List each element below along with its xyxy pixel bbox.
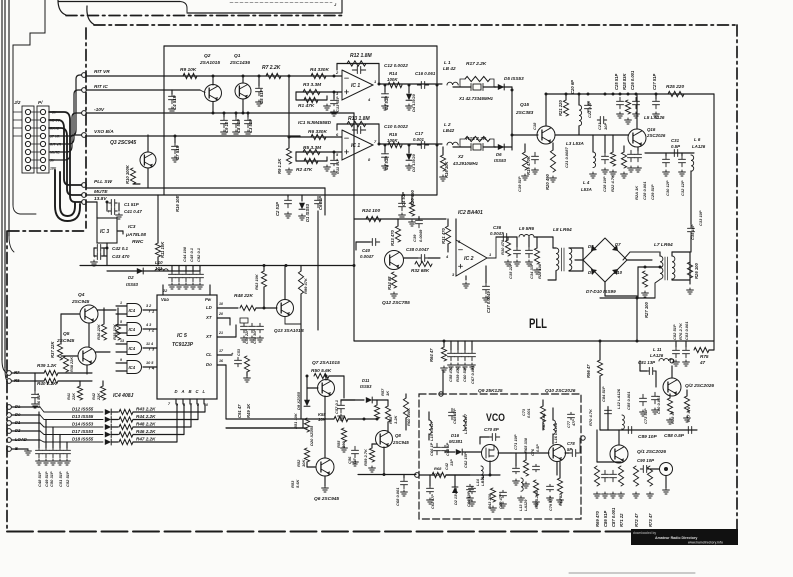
svg-text:ISS53: ISS53 xyxy=(126,282,139,287)
svg-text:Q16: Q16 xyxy=(647,127,656,132)
svg-text:C62 15P: C62 15P xyxy=(463,452,468,468)
svg-text:C42 0.1: C42 0.1 xyxy=(112,246,129,251)
svg-text:μA78L08: μA78L08 xyxy=(125,232,146,238)
svg-text:C12 0.0022: C12 0.0022 xyxy=(384,63,408,68)
svg-text:R50 5.6K: R50 5.6K xyxy=(311,368,332,374)
svg-text:R1 47K: R1 47K xyxy=(298,103,315,109)
svg-text:downloaded by: downloaded by xyxy=(633,531,656,535)
svg-text:2SC945: 2SC945 xyxy=(392,440,409,445)
svg-text:43.2910MHz: 43.2910MHz xyxy=(452,161,479,166)
svg-text:R7 2.2K: R7 2.2K xyxy=(262,65,281,71)
svg-text:C86 51P: C86 51P xyxy=(603,510,608,527)
svg-text:0.5P: 0.5P xyxy=(536,444,540,452)
svg-text:Pᴡ: Pᴡ xyxy=(205,297,212,302)
svg-text:0.001: 0.001 xyxy=(413,137,425,142)
svg-text:C70 8P: C70 8P xyxy=(484,427,499,432)
svg-text:C39: C39 xyxy=(412,234,417,242)
svg-text:10: 10 xyxy=(219,302,223,306)
svg-text:C1 51P: C1 51P xyxy=(124,202,139,207)
svg-text:0.0047: 0.0047 xyxy=(490,231,504,236)
svg-text:C91 47: C91 47 xyxy=(237,404,242,418)
svg-text:D20 XZ055: D20 XZ055 xyxy=(309,425,314,446)
svg-text:100K: 100K xyxy=(387,77,398,82)
svg-text:0.001: 0.001 xyxy=(527,408,531,418)
svg-text:C8 51P: C8 51P xyxy=(236,119,241,133)
svg-text:IC3: IC3 xyxy=(128,224,136,230)
svg-text:R64 47: R64 47 xyxy=(429,348,434,362)
svg-text:C2 51P: C2 51P xyxy=(275,202,280,216)
svg-text:C10 0.0022: C10 0.0022 xyxy=(384,124,408,129)
svg-text:Q8: Q8 xyxy=(395,433,401,438)
svg-text:C40: C40 xyxy=(362,248,371,253)
svg-text:T 3: T 3 xyxy=(148,347,155,352)
svg-text:IC4 408J: IC4 408J xyxy=(113,393,134,399)
svg-text:11 4: 11 4 xyxy=(146,342,154,346)
svg-text:R37 22K: R37 22K xyxy=(50,340,55,358)
svg-text:C55 30P: C55 30P xyxy=(253,329,257,344)
svg-text:L5 LA126: L5 LA126 xyxy=(644,115,665,120)
svg-text:ISS53: ISS53 xyxy=(360,384,372,389)
svg-text:C53: C53 xyxy=(237,348,241,356)
svg-text:Q13 3SA101B: Q13 3SA101B xyxy=(274,328,305,333)
svg-text:4 3: 4 3 xyxy=(145,323,152,327)
svg-text:R24 100: R24 100 xyxy=(362,208,380,214)
svg-text:0.0049: 0.0049 xyxy=(418,229,423,242)
svg-text:D5 ISS53: D5 ISS53 xyxy=(504,76,524,81)
svg-text:47P: 47P xyxy=(572,419,576,427)
svg-text:0.7: 0.7 xyxy=(352,458,357,464)
svg-text:C57 0.1: C57 0.1 xyxy=(334,399,339,414)
svg-text:R27 100: R27 100 xyxy=(644,301,649,318)
svg-text:R60 100K: R60 100K xyxy=(406,407,411,426)
svg-text:C80 0.001: C80 0.001 xyxy=(656,395,661,414)
svg-text:IC4: IC4 xyxy=(129,365,136,370)
svg-text:0.0047: 0.0047 xyxy=(360,254,374,259)
svg-text:C88 0.5P: C88 0.5P xyxy=(664,433,685,439)
svg-text:D7-D10 ISS99: D7-D10 ISS99 xyxy=(586,289,616,294)
svg-text:IC 1: IC 1 xyxy=(351,143,360,149)
svg-text:1: 1 xyxy=(120,301,122,305)
svg-text:R9 1.2K: R9 1.2K xyxy=(277,158,282,174)
svg-text:C11 51P: C11 51P xyxy=(335,158,340,174)
svg-text:C3 51P: C3 51P xyxy=(248,119,253,133)
svg-text:MUTE: MUTE xyxy=(94,189,108,195)
svg-text:R59 2.7K: R59 2.7K xyxy=(363,448,368,466)
svg-text:C28 10P: C28 10P xyxy=(602,176,607,192)
svg-text:R47 2.2K: R47 2.2K xyxy=(136,437,156,442)
svg-text:C34 33P: C34 33P xyxy=(529,263,534,279)
svg-text:R13 1.8M: R13 1.8M xyxy=(348,116,371,122)
svg-text:R46 2.2K: R46 2.2K xyxy=(136,429,156,434)
svg-text:C33 10P: C33 10P xyxy=(698,210,703,226)
svg-text:C4 51P: C4 51P xyxy=(172,95,177,110)
svg-text:D8: D8 xyxy=(588,244,594,249)
svg-text:C38 0.0047: C38 0.0047 xyxy=(406,247,429,252)
svg-text:R65 330: R65 330 xyxy=(523,437,528,453)
svg-text:IC 5: IC 5 xyxy=(177,333,188,339)
svg-text:C36: C36 xyxy=(493,225,502,230)
svg-text:C68 0.001: C68 0.001 xyxy=(395,487,400,506)
svg-text:R3 3.3M: R3 3.3M xyxy=(303,82,322,88)
svg-text:+: + xyxy=(107,209,110,214)
svg-text:C58 470: C58 470 xyxy=(448,366,453,382)
svg-text:10K: 10K xyxy=(318,417,327,422)
svg-text:L3 L53A: L3 L53A xyxy=(566,141,584,146)
svg-text:C19 51P: C19 51P xyxy=(517,176,522,192)
svg-text:R71 22: R71 22 xyxy=(619,513,624,527)
svg-text:IC4: IC4 xyxy=(129,308,136,313)
svg-text:C90 10P: C90 10P xyxy=(637,458,654,463)
svg-text:Q9 25K125: Q9 25K125 xyxy=(478,388,503,394)
svg-text:1.2K: 1.2K xyxy=(393,414,398,424)
svg-text:IC2 BA401: IC2 BA401 xyxy=(458,210,483,216)
svg-text:IC4: IC4 xyxy=(129,346,136,351)
svg-text:C25 51P: C25 51P xyxy=(614,73,619,90)
svg-text:C82 51P: C82 51P xyxy=(672,324,677,340)
svg-text:C66 1P: C66 1P xyxy=(429,442,434,456)
svg-text:ISS53: ISS53 xyxy=(494,158,507,163)
svg-text:C13 51P: C13 51P xyxy=(335,96,340,112)
svg-text:C52 51P: C52 51P xyxy=(65,471,70,487)
svg-text:C63 6P: C63 6P xyxy=(445,442,450,456)
svg-text:TC9123P: TC9123P xyxy=(172,342,194,348)
svg-text:Q15: Q15 xyxy=(520,102,529,108)
svg-text:Q12 2SC785: Q12 2SC785 xyxy=(382,300,410,306)
svg-text:10 5: 10 5 xyxy=(146,361,154,365)
svg-text:L9 5R6: L9 5R6 xyxy=(519,226,535,231)
svg-text:R39 1.2K: R39 1.2K xyxy=(37,363,57,368)
svg-text:13.8V: 13.8V xyxy=(94,196,107,202)
svg-text:R30 470: R30 470 xyxy=(500,239,505,255)
svg-text:C18: C18 xyxy=(532,122,537,130)
svg-text:C30 12P: C30 12P xyxy=(665,180,670,196)
svg-text:Q4: Q4 xyxy=(78,292,85,298)
svg-text:2SC945: 2SC945 xyxy=(71,299,90,305)
svg-text:47: 47 xyxy=(699,360,706,365)
svg-text:R26 100: R26 100 xyxy=(694,262,699,279)
svg-text:R96 47: R96 47 xyxy=(586,364,591,378)
svg-text:C54 22P: C54 22P xyxy=(245,329,249,344)
svg-text:L 6: L 6 xyxy=(694,137,701,142)
svg-text:XT: XT xyxy=(205,334,212,339)
svg-text:R6 330K: R6 330K xyxy=(308,129,327,135)
svg-text:R34 68: R34 68 xyxy=(387,276,392,290)
svg-text:C64 10P: C64 10P xyxy=(466,491,471,507)
svg-text:10K: 10K xyxy=(301,459,306,467)
svg-text:R39 470: R39 470 xyxy=(455,366,460,382)
svg-text:PLL: PLL xyxy=(529,316,547,331)
svg-text:-10V: -10V xyxy=(94,107,105,113)
svg-text:0.5P: 0.5P xyxy=(671,144,680,149)
svg-text:C50 31P: C50 31P xyxy=(49,471,54,487)
svg-text:D1 ISS53: D1 ISS53 xyxy=(305,203,310,222)
svg-text:T 1: T 1 xyxy=(148,309,155,314)
svg-text:C76: C76 xyxy=(531,448,535,456)
svg-text:C45 0.1: C45 0.1 xyxy=(189,247,194,262)
svg-text:XT: XT xyxy=(205,315,212,320)
svg-text:C73: C73 xyxy=(522,408,526,416)
svg-text:R48 2.2K: R48 2.2K xyxy=(136,422,156,427)
svg-text:2SA1015: 2SA1015 xyxy=(199,60,220,66)
svg-text:Q7 2SA1015: Q7 2SA1015 xyxy=(312,360,340,366)
svg-text:2SC945: 2SC945 xyxy=(56,338,75,344)
svg-text:D11: D11 xyxy=(362,378,370,383)
svg-text:R22 4.7K: R22 4.7K xyxy=(610,174,615,192)
svg-text:LB 42: LB 42 xyxy=(443,66,456,71)
svg-text:C20 6P: C20 6P xyxy=(570,80,575,94)
svg-text:R75: R75 xyxy=(700,354,709,359)
svg-text:21: 21 xyxy=(218,331,223,335)
svg-text:LA126: LA126 xyxy=(692,144,706,149)
svg-text:R49 1K: R49 1K xyxy=(246,403,251,418)
svg-text:2SC383: 2SC383 xyxy=(515,110,534,116)
svg-text:C26 0.001: C26 0.001 xyxy=(630,70,635,90)
svg-text:R28 100: R28 100 xyxy=(537,263,542,279)
svg-text:C32 12P: C32 12P xyxy=(680,180,685,196)
svg-text:R15: R15 xyxy=(389,132,398,137)
svg-text:IC1 NJM4558D: IC1 NJM4558D xyxy=(298,120,332,126)
svg-text:R9 10K: R9 10K xyxy=(180,67,197,73)
svg-text:R41: R41 xyxy=(67,393,71,400)
svg-text:D6: D6 xyxy=(496,152,502,157)
svg-text:R43 2.2K: R43 2.2K xyxy=(136,407,156,412)
svg-text:R4 330K: R4 330K xyxy=(310,67,329,73)
svg-text:L: L xyxy=(203,389,206,394)
svg-text:R73 47: R73 47 xyxy=(648,513,653,527)
svg-text:D18 ISS55: D18 ISS55 xyxy=(72,437,94,442)
svg-text:C67 0.001: C67 0.001 xyxy=(470,365,475,384)
svg-text:A: A xyxy=(181,389,185,394)
svg-text:LA126: LA126 xyxy=(650,353,664,358)
svg-text:C71 10P: C71 10P xyxy=(513,434,518,450)
svg-text:C92 0.1: C92 0.1 xyxy=(196,247,201,262)
svg-text:IC 2: IC 2 xyxy=(464,256,474,262)
svg-text:T 4: T 4 xyxy=(148,366,155,371)
svg-text:R28 83K: R28 83K xyxy=(622,72,627,90)
svg-text:C89 10P: C89 10P xyxy=(638,434,657,440)
svg-text:L53A: L53A xyxy=(581,187,592,192)
svg-text:L13: L13 xyxy=(519,504,523,511)
svg-text:R76 2.7K: R76 2.7K xyxy=(678,322,683,340)
svg-text:C48 51P: C48 51P xyxy=(37,471,42,487)
svg-text:R43 230: R43 230 xyxy=(487,493,492,509)
svg-text:M1381: M1381 xyxy=(449,439,463,444)
svg-text:R19 470K: R19 470K xyxy=(526,155,531,175)
svg-text:LA129: LA129 xyxy=(524,499,528,511)
svg-text:5.6K: 5.6K xyxy=(295,478,300,488)
svg-text:IC 3: IC 3 xyxy=(100,229,109,235)
svg-text:R38 22K: R38 22K xyxy=(70,357,74,372)
svg-text:Q5: Q5 xyxy=(63,331,70,337)
svg-text:R17 2.2K: R17 2.2K xyxy=(466,61,487,67)
svg-text:C77: C77 xyxy=(567,420,571,428)
svg-text:L 4: L 4 xyxy=(583,180,590,185)
svg-text:CL: CL xyxy=(206,352,212,357)
svg-text:L10: L10 xyxy=(155,260,163,265)
svg-text:C23: C23 xyxy=(597,122,602,130)
svg-text:P/: P/ xyxy=(38,100,43,105)
svg-text:L 11: L 11 xyxy=(653,347,662,352)
svg-text:Q3 2SC945: Q3 2SC945 xyxy=(110,140,136,146)
svg-text:R14: R14 xyxy=(389,71,398,76)
svg-text:R69 470: R69 470 xyxy=(595,510,600,527)
svg-text:L8 LR64: L8 LR64 xyxy=(553,227,572,233)
svg-text:D13 ISS55: D13 ISS55 xyxy=(72,414,94,419)
svg-text:13P: 13P xyxy=(450,459,454,466)
svg-text:D17 ISS53: D17 ISS53 xyxy=(72,429,94,434)
svg-text:R12 1.8M: R12 1.8M xyxy=(350,53,373,59)
svg-text:D10: D10 xyxy=(614,270,623,275)
svg-text:D9 XZ055: D9 XZ055 xyxy=(296,391,301,410)
svg-text:5P: 5P xyxy=(567,447,572,452)
svg-text:X1 42.73346MHz: X1 42.73346MHz xyxy=(458,96,494,101)
svg-text:C78: C78 xyxy=(567,441,575,446)
svg-text:R31 470: R31 470 xyxy=(441,227,446,244)
svg-text:D7: D7 xyxy=(615,242,621,247)
svg-text:C21 0.0087: C21 0.0087 xyxy=(564,147,569,168)
svg-text:R99 47K: R99 47K xyxy=(303,277,308,294)
svg-text:20: 20 xyxy=(218,312,223,316)
svg-text:T 2: T 2 xyxy=(148,328,155,333)
svg-text:C60 51P: C60 51P xyxy=(462,366,467,382)
svg-text:C46 51P: C46 51P xyxy=(37,393,41,408)
svg-text:Q1: Q1 xyxy=(234,53,241,59)
svg-text:D4 13V20: D4 13V20 xyxy=(411,93,416,112)
svg-text:R42: R42 xyxy=(92,392,96,400)
svg-text:Do: Do xyxy=(206,362,212,367)
svg-text:R2 47K: R2 47K xyxy=(296,167,313,173)
svg-text:IC 1: IC 1 xyxy=(351,83,360,89)
svg-text:C83 0.001: C83 0.001 xyxy=(684,321,689,340)
svg-text:R16 10E: R16 10E xyxy=(175,195,180,212)
svg-text:C42: C42 xyxy=(445,462,449,470)
svg-text:D: D xyxy=(175,389,178,394)
svg-text:J/2: J/2 xyxy=(14,100,21,105)
svg-text:C43 470: C43 470 xyxy=(112,254,130,259)
svg-text:390: 390 xyxy=(341,441,346,448)
svg-text:RIT IC: RIT IC xyxy=(94,84,108,90)
svg-text:R5 3.3M: R5 3.3M xyxy=(303,145,322,151)
svg-text:D9: D9 xyxy=(588,270,594,275)
svg-text:L12 LA126: L12 LA126 xyxy=(616,388,621,409)
svg-text:D3 13V20: D3 13V20 xyxy=(411,153,416,172)
svg-text:LD: LD xyxy=(206,305,213,310)
svg-text:9: 9 xyxy=(120,358,122,362)
svg-text:100K: 100K xyxy=(387,138,398,143)
svg-text:R33 470: R33 470 xyxy=(390,229,395,246)
svg-text:R63 10K: R63 10K xyxy=(254,273,259,290)
svg-text:C44 100: C44 100 xyxy=(182,246,187,262)
svg-text:D2: D2 xyxy=(128,275,134,280)
svg-text:www.hamdirectory.info: www.hamdirectory.info xyxy=(687,541,723,545)
svg-text:Vᴅᴅ: Vᴅᴅ xyxy=(161,297,169,302)
svg-text:R20 490: R20 490 xyxy=(545,173,550,190)
svg-text:R25 220: R25 220 xyxy=(666,84,684,90)
svg-text:R51 10K: R51 10K xyxy=(293,412,298,429)
svg-text:L 1: L 1 xyxy=(444,60,451,65)
svg-text:L7 LR64: L7 LR64 xyxy=(654,242,673,248)
svg-text:L 2: L 2 xyxy=(444,122,451,127)
svg-text:IC4: IC4 xyxy=(129,327,136,332)
svg-text:C41 0.47: C41 0.47 xyxy=(124,209,142,214)
svg-text:2SC1436: 2SC1436 xyxy=(229,60,250,66)
svg-text:R72 47: R72 47 xyxy=(634,513,639,527)
svg-text:C51 51P: C51 51P xyxy=(58,471,63,487)
svg-text:Q2: Q2 xyxy=(204,53,211,59)
svg-text:Q/1 2SC2026: Q/1 2SC2026 xyxy=(637,449,666,455)
svg-text:3 2: 3 2 xyxy=(146,304,152,308)
svg-text:C61 47P: C61 47P xyxy=(431,494,435,509)
svg-text:R36 22K: R36 22K xyxy=(96,323,101,340)
svg-text:X2: X2 xyxy=(457,154,464,159)
svg-text:Q10 2SC2026: Q10 2SC2026 xyxy=(545,388,576,394)
svg-text:RWC: RWC xyxy=(132,239,144,245)
svg-text:C85 0.001: C85 0.001 xyxy=(626,391,631,410)
svg-text:C27 51P: C27 51P xyxy=(652,73,657,90)
svg-text:C17: C17 xyxy=(415,131,424,136)
svg-text:Q/2 2SC2026: Q/2 2SC2026 xyxy=(685,383,714,389)
svg-text:R2A 1K: R2A 1K xyxy=(634,185,639,200)
svg-text:13: 13 xyxy=(120,339,124,343)
svg-text:R10 100K: R10 100K xyxy=(125,164,130,184)
svg-text:D12 ISS55: D12 ISS55 xyxy=(72,407,94,412)
svg-text:PLL SW: PLL SW xyxy=(94,179,113,185)
svg-text:C31: C31 xyxy=(671,138,680,143)
svg-text:C29 51P: C29 51P xyxy=(650,184,655,200)
svg-text:B: B xyxy=(189,389,192,394)
svg-text:22K: 22K xyxy=(72,393,76,401)
svg-text:VCO: VCO xyxy=(486,412,505,424)
svg-text:C28 0.001: C28 0.001 xyxy=(642,181,647,200)
svg-text:VXO B/A: VXO B/A xyxy=(94,129,114,135)
svg-text:Amateur Radio Directory: Amateur Radio Directory xyxy=(655,536,697,540)
svg-text:LB42: LB42 xyxy=(443,128,455,133)
svg-text:Q6 2SC945: Q6 2SC945 xyxy=(314,496,339,502)
svg-text:D14 ISS53: D14 ISS53 xyxy=(72,422,94,427)
svg-text:C84 51P: C84 51P xyxy=(601,386,606,402)
svg-text:C35 22P: C35 22P xyxy=(508,263,513,279)
svg-text:C16 0.061: C16 0.061 xyxy=(415,71,436,76)
svg-text:C87 0.001: C87 0.001 xyxy=(611,507,616,527)
svg-text:R32 68K: R32 68K xyxy=(411,268,430,273)
svg-text:R70 4.7K: R70 4.7K xyxy=(588,408,593,426)
svg-text:2SC2026: 2SC2026 xyxy=(646,133,666,138)
svg-text:D2 13V08: D2 13V08 xyxy=(454,487,458,505)
svg-text:C6 51P: C6 51P xyxy=(318,196,323,210)
svg-text:RIT VR: RIT VR xyxy=(94,69,110,75)
svg-text:R68: R68 xyxy=(434,466,442,471)
svg-text:D16: D16 xyxy=(451,433,460,438)
svg-text:C9 10: C9 10 xyxy=(224,121,229,133)
svg-text:R44 2.2K: R44 2.2K xyxy=(136,414,156,419)
svg-text:R21 220: R21 220 xyxy=(558,99,563,116)
svg-text:R48 22K: R48 22K xyxy=(234,293,253,299)
